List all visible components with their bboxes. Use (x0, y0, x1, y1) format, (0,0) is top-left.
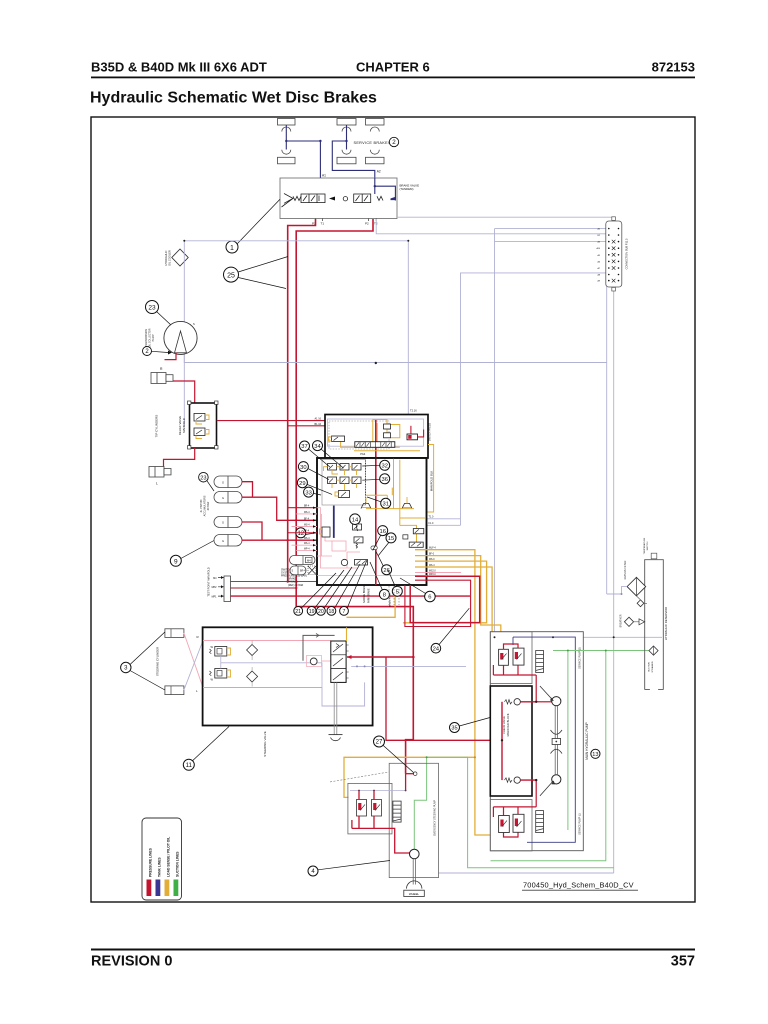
bottom pump cartridge 1 (499, 816, 510, 833)
svg-text:MP1: MP1 (212, 595, 218, 598)
svg-text:F1.0: F1.0 (429, 522, 434, 525)
red line R cylinder to relief manifold (173, 381, 195, 403)
solenoid coil zigzag (356, 543, 358, 548)
lavender line row1 to connector (495, 229, 607, 638)
red pressure main from P1 (288, 219, 316, 582)
return filter (627, 577, 646, 596)
svg-text:20: 20 (318, 609, 324, 615)
svg-text:1: 1 (230, 245, 234, 252)
check valve bottom spring and ball (505, 778, 513, 782)
callout circle 13 (591, 749, 600, 758)
svg-text:G: G (222, 539, 224, 543)
svg-text:BR-4: BR-4 (300, 570, 306, 573)
steering valve box (203, 627, 373, 725)
lavender exit line right (351, 665, 466, 667)
yellow emergency feed from bundle (344, 757, 475, 797)
svg-text:CHAPTER 6: CHAPTER 6 (356, 60, 430, 75)
bottom red piping (493, 780, 536, 837)
relief valve cartridge 1 (194, 414, 205, 422)
lavender line row3 to connector (495, 241, 607, 243)
emergency cartridge 1 (357, 800, 367, 817)
filter inlet elbow (607, 587, 627, 594)
brake valve navy pilot loop (375, 178, 396, 200)
svg-text:HYDRAULIC RESERVOIR: HYDRAULIC RESERVOIR (664, 607, 668, 640)
callout circle 26 (382, 565, 392, 575)
svg-text:35: 35 (451, 726, 457, 732)
legend load sense bar (165, 880, 170, 897)
svg-text:G: G (222, 496, 224, 500)
brake valve left spool (282, 194, 326, 208)
navy accent bar (333, 506, 335, 538)
callout circle 23 (146, 301, 159, 314)
check valve top spring and ball (505, 700, 513, 704)
lavender horizontal to reservoir (495, 636, 663, 638)
svg-text:19: 19 (309, 609, 315, 615)
pressure switch capsule (290, 556, 316, 565)
emergency steering pump outer box (389, 763, 438, 877)
svg-text:MS-4: MS-4 (304, 525, 310, 527)
svg-text:CONNECTION SUB P11.5: CONNECTION SUB P11.5 (625, 238, 629, 269)
junction dots misc (183, 240, 614, 782)
svg-text:5: 5 (396, 589, 399, 595)
row2 cartridge valves (328, 477, 362, 484)
svg-text:MANIFOLD BLOCK: MANIFOLD BLOCK (506, 713, 510, 736)
manifold lower box (317, 458, 427, 585)
svg-text:T1: T1 (321, 222, 325, 226)
steering cylinder L (165, 686, 184, 695)
emergency red piping (352, 774, 414, 853)
svg-text:MANIFOLD: MANIFOLD (182, 418, 186, 432)
coupling arcs (551, 730, 563, 734)
svg-text:MANIFOLD BLK: MANIFOLD BLK (430, 471, 434, 492)
callout circle 30 (298, 462, 308, 472)
svg-text:B1.16: B1.16 (315, 423, 322, 426)
svg-text:LOAD SENSE / PILOT OIL: LOAD SENSE / PILOT OIL (167, 837, 171, 877)
pink exit line (415, 572, 461, 574)
svg-text:11: 11 (186, 762, 193, 769)
red branch to check valve block (386, 657, 502, 740)
lavender vertical to return filter (606, 273, 608, 594)
check valve red loop (501, 702, 503, 780)
manifold right port labels (429, 548, 436, 577)
red exit loop 2 (405, 580, 471, 626)
svg-text:MS-4: MS-4 (304, 512, 310, 514)
svg-text:SERVICE BRAKES: SERVICE BRAKES (354, 141, 391, 145)
svg-text:27: 27 (376, 740, 383, 746)
svg-text:(TANDEM): (TANDEM) (400, 187, 414, 191)
emergency cartridge 2 (372, 800, 382, 817)
leader line circle 1 (238, 199, 281, 243)
svg-text:7: 7 (343, 609, 346, 615)
top hatched compensator (536, 651, 544, 673)
bottom callout circles 21 19 20 18 7 (294, 607, 303, 616)
yellow exit bundle to bottom pump (415, 550, 491, 835)
manifold main red artery (375, 420, 377, 585)
dotted separation line (365, 458, 367, 505)
svg-text:B35D & B40D Mk III 6X6 ADT: B35D & B40D Mk III 6X6 ADT (91, 60, 267, 75)
manifold left port lines (288, 507, 317, 509)
svg-text:M4: M4 (307, 559, 311, 563)
bottom pump cartridge 2 (513, 814, 524, 832)
svg-text:S: S (193, 322, 195, 326)
yellow emergency pilot line (347, 585, 396, 617)
leader circle 23 (157, 312, 173, 327)
small capsule mid (371, 546, 377, 550)
pink relay rect (332, 541, 346, 551)
pump circle top (552, 697, 561, 706)
X dashed box (308, 566, 316, 575)
accumulator 1 (214, 476, 242, 546)
bypass diamond (637, 600, 644, 607)
brake valve port ticks (316, 219, 377, 222)
svg-text:T1.0: T1.0 (429, 516, 434, 519)
svg-text:357: 357 (671, 954, 695, 970)
svg-text:Hydraulic Schematic Wet Disc B: Hydraulic Schematic Wet Disc Brakes (90, 90, 377, 107)
upper box central valve (355, 442, 395, 448)
comp left column (322, 527, 330, 537)
svg-text:EMERGENCY STEERING PUMP: EMERGENCY STEERING PUMP (434, 800, 437, 836)
svg-text:TEST POINT MANIFOLD: TEST POINT MANIFOLD (207, 567, 211, 596)
yellow exit to check valve (415, 567, 502, 649)
lavender connector drop to bottom (439, 287, 614, 873)
grey transmission suction line to filter (184, 355, 606, 363)
svg-text:872153: 872153 (652, 60, 695, 75)
svg-text:SERVICE PUMP (1): SERVICE PUMP (1) (579, 813, 582, 835)
pump circle bottom (552, 775, 561, 784)
reservoir top component (651, 553, 657, 559)
legend box (142, 818, 182, 900)
manifold upper box (325, 415, 428, 459)
brake valve right spool (354, 194, 383, 203)
tip cylinder R (151, 373, 173, 384)
svg-text:MAIN HYDRAULIC PUMP: MAIN HYDRAULIC PUMP (585, 722, 589, 759)
callout circle 37 (300, 441, 310, 451)
svg-text:MS-4: MS-4 (304, 543, 310, 545)
svg-text:MP-4: MP-4 (304, 548, 310, 550)
svg-text:6: 6 (428, 595, 431, 601)
svg-text:31: 31 (382, 502, 388, 508)
top pump cartridge 2 (513, 648, 524, 665)
callout circle 32 (380, 460, 390, 470)
red exit loop 1 (410, 576, 480, 622)
row1 cartridge valves (328, 464, 362, 471)
steering cross lines (184, 633, 203, 688)
svg-text:14: 14 (352, 517, 359, 523)
callout circle 3 (121, 662, 131, 672)
top cartridge red piping (493, 644, 551, 702)
svg-text:HYDRAULIC: HYDRAULIC (164, 250, 168, 265)
steering valve inner links (221, 656, 322, 688)
steering spool (331, 641, 346, 682)
green emergency loop (427, 757, 614, 868)
manifold upper dashed region (329, 421, 389, 449)
svg-text:STEERING VALVE: STEERING VALVE (263, 731, 267, 756)
svg-text:PARK BRAKE: PARK BRAKE (368, 588, 371, 603)
steering check diamond 2 (247, 671, 258, 682)
callout circle 5 (392, 586, 402, 596)
manifold main red artery lower (redraw over) (375, 458, 377, 585)
svg-text:9: 9 (174, 558, 178, 565)
svg-text:STRAINER: STRAINER (651, 661, 654, 672)
tank symbol below steering (329, 734, 343, 736)
steering pink R line (203, 640, 331, 642)
leader lines circle 25 (238, 257, 288, 273)
svg-text:30: 30 (300, 465, 306, 471)
emergency pump circle (410, 849, 420, 859)
callout circle 1 (226, 241, 238, 253)
svg-text:SWITCH: SWITCH (647, 541, 649, 550)
svg-text:MP2: MP2 (212, 586, 218, 589)
upper box red solenoid component (407, 434, 418, 440)
callout circle 9 (170, 555, 181, 566)
svg-text:PRESSURE LINES: PRESSURE LINES (149, 847, 153, 877)
lavender tank line T2 to connector (376, 219, 606, 234)
svg-text:40 BAR: 40 BAR (207, 502, 210, 511)
steering gerotor circle (310, 658, 317, 665)
svg-text:BR-4: BR-4 (304, 506, 310, 508)
steering internal pump loop (303, 635, 335, 660)
comp below 14 (354, 537, 363, 543)
upper box yellow network (341, 420, 434, 513)
brake valve box U1 (280, 178, 397, 219)
svg-text:TIP CYLINDERS: TIP CYLINDERS (155, 415, 159, 438)
svg-text:15: 15 (388, 536, 394, 542)
legend pressure bar (147, 880, 152, 897)
svg-text:BF-4: BF-4 (304, 531, 310, 533)
upper box left component (332, 436, 345, 442)
steering check diamond 1 (247, 645, 258, 656)
relief valve manifold box (190, 403, 217, 448)
callout circle 2 pump (143, 347, 152, 356)
wheel brake cylinder top row 1 (278, 119, 385, 132)
red line relief manifold to L cylinder (164, 448, 195, 467)
svg-text:STEERING CYLINDER: STEERING CYLINDER (156, 647, 160, 676)
svg-text:21: 21 (295, 609, 301, 615)
svg-text:2: 2 (392, 139, 396, 146)
callout circle 16 (378, 526, 388, 536)
svg-text:700450_Hyd_Schem_B40D_CV: 700450_Hyd_Schem_B40D_CV (523, 881, 634, 890)
brake valve right arrow (390, 197, 396, 201)
red pump outlet line (165, 353, 177, 360)
steering solenoid valve 2 (215, 669, 227, 679)
svg-text:24: 24 (433, 646, 439, 652)
svg-text:A1.16: A1.16 (315, 418, 322, 421)
emergency lavender bus (350, 790, 406, 792)
yellow pressure-reduce trapezoid right (402, 504, 412, 509)
breather (624, 617, 633, 626)
callout circle 2 top (389, 137, 398, 146)
svg-text:25: 25 (227, 272, 235, 279)
svg-text:SUCTION: SUCTION (649, 662, 651, 672)
relief valve cartridge 2 (194, 428, 205, 436)
red accumulator lines (242, 482, 317, 541)
bottom comps row (341, 559, 347, 565)
yellow spool feed stub (346, 627, 348, 641)
svg-text:(REF) 10 BAR: (REF) 10 BAR (288, 584, 304, 587)
red pressure main from P2 to emergency pump (296, 219, 413, 774)
tip cylinder L (149, 467, 171, 478)
wheel drive shaft (413, 859, 415, 885)
callout circle 34 (313, 441, 323, 451)
green reservoir loop (491, 651, 606, 861)
wire junction dots (285, 140, 348, 142)
svg-text:TEMPERATURE: TEMPERATURE (643, 537, 646, 554)
comp3 valve (339, 491, 350, 498)
svg-text:OIL COOLER: OIL COOLER (168, 250, 172, 266)
right side comps (413, 529, 424, 534)
yellow exit short loop (403, 561, 487, 623)
svg-text:REVISION 0: REVISION 0 (91, 954, 172, 970)
hydraulic reservoir (645, 560, 664, 690)
svg-text:37: 37 (301, 444, 307, 450)
callout circle 36 (380, 474, 390, 484)
svg-text:PUMP: PUMP (152, 334, 155, 341)
svg-text:13: 13 (592, 752, 598, 758)
svg-text:TANK LINES: TANK LINES (158, 857, 162, 877)
callout circle 4 (308, 866, 318, 876)
callout circle 35 (450, 723, 460, 733)
emergency pump inner box (348, 783, 392, 834)
hydraulic oil cooler (172, 249, 188, 266)
comp 14 valve (353, 524, 362, 530)
svg-text:A1: A1 (322, 174, 326, 178)
callout circle 6 (425, 591, 436, 602)
svg-text:BF-4: BF-4 (304, 518, 310, 520)
header rule (91, 77, 695, 79)
svg-text:23: 23 (148, 305, 156, 312)
yellow exit to top service pump (415, 556, 501, 646)
wheel brake cylinder bottom row (278, 150, 385, 164)
suction strainer (649, 646, 658, 655)
svg-text:33: 33 (305, 490, 311, 496)
steering cylinder R (165, 629, 184, 638)
svg-text:8: 8 (383, 593, 386, 599)
brake supply wires navy (286, 125, 375, 178)
left port arrows (313, 507, 316, 552)
callout circle 11 (183, 759, 194, 770)
wheel box (404, 890, 425, 896)
svg-text:32: 32 (381, 464, 387, 470)
green suction line to reservoir (553, 650, 649, 652)
svg-text:16: 16 (379, 529, 385, 535)
transmission oil collector pump (164, 321, 197, 354)
arrow leader circle 2 (152, 351, 169, 352)
svg-text:WHEEL: WHEEL (409, 892, 420, 896)
svg-text:MS-4: MS-4 (304, 538, 310, 540)
upper box small components right (384, 424, 391, 429)
service pump 2 sub-box (490, 632, 532, 684)
check valve manifold block (490, 686, 532, 796)
connector block (606, 221, 622, 287)
svg-text:26: 26 (383, 568, 389, 574)
left port labels (304, 506, 310, 551)
red line A.16 into manifold (217, 420, 325, 422)
svg-text:G: G (222, 481, 224, 485)
steering lavender L line (203, 682, 365, 706)
spool drain shaft (334, 682, 337, 734)
footer rule (91, 949, 695, 951)
brake valve shuttle circle (343, 197, 347, 201)
service pump 1 sub-box (490, 800, 532, 851)
green emergency feed (414, 757, 426, 849)
callout circle 27 (374, 736, 385, 747)
svg-text:SWITCH PRESS: SWITCH PRESS (429, 422, 432, 441)
bottom hatched compensator (536, 811, 544, 833)
svg-text:SADDLE BRAKE: SADDLE BRAKE (363, 585, 366, 603)
red supply into steering spool (347, 656, 413, 658)
svg-text:36: 36 (381, 477, 387, 483)
svg-text:23: 23 (200, 475, 206, 481)
manifold lower grey sub-box (322, 460, 366, 506)
callout circle 25 (224, 267, 239, 282)
brake pack capsule (290, 566, 306, 575)
drive shaft (555, 706, 557, 775)
svg-text:A2: A2 (377, 170, 381, 174)
svg-text:P2: P2 (365, 222, 369, 226)
green internal pump line (567, 651, 569, 831)
callout circle 8 (379, 589, 389, 599)
callout circle 14 (350, 514, 361, 525)
legend tank bar (156, 880, 161, 897)
svg-text:PG4: PG4 (360, 452, 366, 456)
emergency hatched element (393, 801, 401, 822)
svg-text:T2.16: T2.16 (410, 409, 417, 413)
spool side ticks (346, 645, 349, 678)
callout circle 24 (431, 643, 441, 653)
svg-text:L: L (156, 482, 158, 486)
svg-text:G: G (222, 521, 224, 525)
grey return line top loop (184, 241, 408, 426)
brake valve left arrow (329, 197, 335, 201)
callout circle 29 (297, 478, 307, 488)
svg-text:RETURN FILTER: RETURN FILTER (624, 560, 627, 579)
lavender line brake valve to connector top (397, 217, 613, 221)
svg-text:BREATHER: BREATHER (620, 614, 623, 627)
callout circle 33 (304, 487, 314, 497)
callout circle 31 (381, 498, 391, 508)
svg-text:SUCTION LINES: SUCTION LINES (176, 851, 180, 877)
svg-text:18: 18 (329, 609, 335, 615)
schematic border frame (91, 117, 695, 902)
dashed bundle below manifold (389, 586, 399, 605)
test point manifold (224, 576, 231, 602)
callout circle 23 accumulator (199, 472, 209, 482)
pink internal lines (317, 508, 427, 576)
lower box yellow network (366, 459, 425, 542)
manifold upper lavender rect (328, 419, 424, 446)
callout circle 12 (296, 528, 306, 538)
navy LS loop (513, 637, 575, 842)
svg-text:29: 29 (299, 481, 305, 487)
legend suction bar (174, 880, 179, 897)
red line B.16 into manifold (288, 425, 411, 427)
svg-text:34: 34 (314, 444, 321, 450)
callout circle 15 (386, 533, 396, 543)
main hydraulic pump outer box (490, 632, 583, 851)
steering solenoid valve 1 (215, 647, 227, 657)
test point red lines (231, 581, 318, 583)
lavender loop manifold right (427, 273, 607, 525)
svg-text:BRAKE FEED: BRAKE FEED (389, 593, 392, 607)
top pump cartridge 1 (499, 649, 509, 665)
yellow pressure-reduce trapezoid left (361, 504, 371, 509)
dashed reference leader (330, 772, 389, 782)
